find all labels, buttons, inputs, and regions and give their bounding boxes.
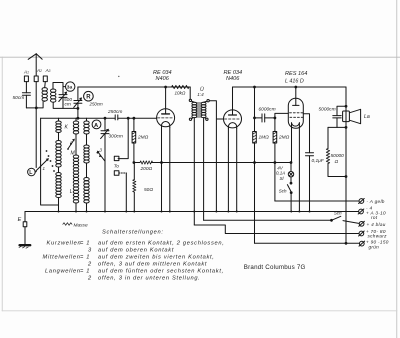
tube V1 RE034 [157,87,175,212]
terminal +4 blau [359,221,365,226]
node 3a circle [63,82,75,91]
svg-text:3: 3 [88,247,92,253]
wire bus top corner to speaker [345,87,347,243]
wire A3 down to coil [44,82,47,88]
wire antenna block bottom rail [26,101,43,108]
wire A1 down [25,82,27,93]
svg-text:Brandt Columbus 7G: Brandt Columbus 7G [244,264,306,271]
svg-text:To: To [114,164,119,170]
text Brandt Columbus 7G [244,264,306,271]
speck [118,76,119,77]
switch arm 2 [69,141,74,148]
wire anode drop to coupling cap [254,87,256,118]
node L circle [28,168,36,176]
svg-text:50cm: 50cm [13,95,25,101]
svg-text:offen, 3 in der unteren Stellu: offen, 3 in der unteren Stellung. [98,275,200,281]
svg-text:grün: grün [369,244,380,249]
resistor 2MOhm grid leak 1 [132,118,136,162]
wire left loop [41,118,59,205]
svg-text:- A gelb: - A gelb [367,199,385,204]
svg-text:offen, 3 auf dem mittleren Kon: offen, 3 auf dem mittleren Kontakt [98,261,207,267]
switch arm 3 [99,153,105,161]
riser to +4 line [203,121,205,220]
resistor 1MOhm [253,118,257,243]
svg-text:Schalterstellungen:: Schalterstellungen: [102,230,164,236]
svg-text:Masse: Masse [74,223,88,229]
wire below L1 [44,100,46,103]
svg-text:6000cm: 6000cm [259,107,276,113]
junction 300cm top [104,117,106,119]
resistor 200 Ohm [134,161,291,164]
capacitor 300cm variable [101,118,109,211]
svg-text:RES 164: RES 164 [285,71,307,77]
svg-text:K: K [65,125,69,131]
svg-text:2: 2 [87,261,92,267]
svg-text:1: 1 [43,166,46,171]
wire grid stub to V3 [275,113,288,118]
svg-text:3a: 3a [67,85,73,91]
capacitor 500cm variable [59,92,78,109]
svg-text:2MΩ: 2MΩ [137,135,149,141]
svg-text:250cm: 250cm [107,109,122,115]
node R circle [84,91,94,101]
oscillator coil K column1 [58,118,60,121]
svg-text:2: 2 [87,275,92,281]
svg-text:auf dem fünften oder sechsten: auf dem fünften oder sechsten Kontakt, [98,268,224,274]
svg-text:Langwellen: Langwellen [45,268,81,274]
svg-text:Sch: Sch [279,189,287,194]
tube V2 RE034 [224,87,242,212]
svg-text:L: L [70,189,73,195]
top supply bus right segment [233,86,347,88]
svg-text:Sch: Sch [334,211,342,216]
bus junction dots [58,211,311,213]
capacitor 250cm fixed [115,115,118,120]
svg-text:Sl: Sl [280,176,285,181]
resistor 50 Ohm [133,163,136,212]
svg-text:A1: A1 [23,70,29,75]
terminal +A rot [358,209,364,214]
terminal To lower [114,171,119,175]
svg-text:auf dem ersten Kontakt, 2 gesc: auf dem ersten Kontakt, 2 geschlossen, [98,240,225,246]
terminal A3 [43,76,47,82]
svg-text:2MΩ: 2MΩ [278,135,290,141]
capacitor 6000cm [255,114,275,122]
svg-text:200Ω: 200Ω [140,166,153,172]
grid line wire to tube1 [41,117,116,119]
lamp Sl 4V 0,1A [288,163,293,183]
wave switch contacts left [46,150,55,172]
capacitor 50cm [22,93,30,108]
wire top rail antenna block [53,83,63,93]
svg-text:+ 4 blau: + 4 blau [367,222,386,227]
svg-text:N406: N406 [156,76,170,82]
node A3 label [45,68,51,73]
svg-text:La: La [364,114,370,120]
svg-text:L 416 D: L 416 D [285,78,304,84]
svg-text:A3: A3 [45,68,51,73]
svg-text:A2: A2 [36,68,42,73]
svg-text:50000: 50000 [331,153,345,159]
svg-text:Kurzwellen: Kurzwellen [47,240,82,246]
chassis Masse symbol [63,223,72,226]
svg-text:Mittelwellen: Mittelwellen [43,254,81,260]
resistor 2MOhm 2 [273,118,277,201]
junction anode V1 [165,86,167,88]
svg-text:= 1: = 1 [80,254,90,260]
junction A2 bottom [35,107,37,109]
svg-text:2: 2 [69,141,73,146]
top supply bus left segment [78,86,190,88]
svg-text:= 1: = 1 [80,268,90,274]
svg-text:300cm: 300cm [109,134,123,140]
ground symbol [19,245,30,248]
svg-text:cm: cm [65,102,71,107]
terminal A2 [34,76,38,82]
svg-text:E: E [18,217,22,223]
oscillator coil column3 [86,118,88,121]
resistor 50000 Ohm [326,127,346,176]
junction 200ohm line / V1 filament [161,162,163,164]
svg-text:0,1A: 0,1A [276,170,285,175]
svg-text:1:4: 1:4 [197,92,204,97]
svg-text:rot: rot [371,215,378,220]
terminal E [23,212,27,245]
ground bus [25,211,358,213]
svg-text:Ω: Ω [335,159,339,165]
wire -A riser [275,200,359,202]
junction R cap bottom [77,108,79,110]
svg-text:250cm: 250cm [89,101,104,106]
svg-text:schwarz: schwarz [368,234,388,239]
wire To upper to grid line [118,118,128,158]
svg-text:50Ω: 50Ω [144,187,153,193]
wire +70-80 line [194,225,358,234]
oscillator coil M column2 [75,118,77,121]
terminal -A gelb [359,199,365,204]
svg-text:R: R [86,95,91,101]
svg-text:N406: N406 [226,76,240,82]
svg-text:10kΩ: 10kΩ [175,90,186,95]
coil antenna L1 [42,88,47,101]
terminal A1 [24,76,28,82]
wire secondary to V2 grid [209,101,223,212]
capacitor 250cm variable (R) [74,87,82,118]
node A2 label [36,68,42,73]
switch arm 1 [36,160,47,171]
wire A2 down [35,82,37,168]
svg-text:5000cm: 5000cm [319,107,336,113]
svg-text:0,1μF: 0,1μF [312,158,325,164]
transformer U 1:4 [189,87,209,121]
resistor 10kOhm [172,85,190,88]
speaker La [343,109,361,123]
text Schalterstellungen [43,230,225,282]
terminal To upper [114,156,119,160]
switch Sch lamp [287,185,291,192]
terminal +90-150 gruen [359,241,365,246]
screen stub to 0,1uF line [303,114,309,153]
svg-text:auf dem zweiten bis vierten Ko: auf dem zweiten bis vierten Kontakt, [98,254,215,260]
svg-text:3: 3 [100,148,103,153]
coil antenna L2 [51,89,56,102]
node A1 label [23,70,29,75]
capacitor 0,1uF [306,153,314,212]
node A circle [92,120,101,129]
wire To lower down [119,172,126,174]
svg-text:1MΩ: 1MΩ [259,135,270,141]
riser to +70-80 line [193,121,195,225]
terminal +70-80 schwarz [359,231,365,236]
antenna symbol [28,54,42,76]
switch Sch heater [332,216,341,220]
wire +4 blau line [204,219,332,221]
svg-text:= 1: = 1 [80,240,90,246]
capacitor 5000cm [333,106,346,127]
svg-text:auf dem oberen Kontakt: auf dem oberen Kontakt [98,247,174,253]
wire +90-150 line [255,242,359,244]
tube V3 RES164 [288,87,303,212]
